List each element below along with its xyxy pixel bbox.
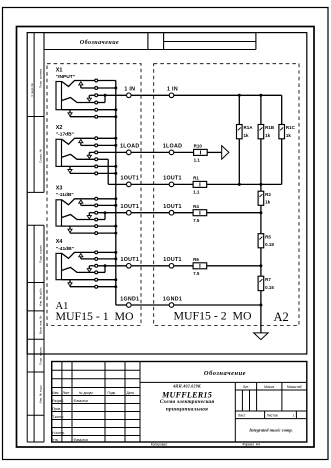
node 1OUT1 A2 pin label — [163, 257, 182, 263]
margin graph "Инв. № дубл." — [39, 288, 43, 307]
wire net 1OUT1(3) to R6 — [174, 265, 193, 267]
connector X4 ring switch arrow — [87, 266, 95, 272]
resistor R1A — [237, 125, 243, 139]
wire X2 pin4 to OUT row — [98, 159, 127, 184]
footer Формат А4 — [242, 443, 260, 447]
wire X3 pin1 to ground bus — [98, 198, 116, 200]
junction dot OUT2/spine — [259, 211, 262, 214]
svg-text:1LOAD: 1LOAD — [120, 144, 139, 150]
wire X2 pin6 to ground bus — [98, 172, 116, 174]
title block Лит/Масса/Масштаб headers — [243, 385, 302, 389]
svg-text:"-41dB": "-41dB" — [56, 246, 74, 252]
svg-text:1k: 1k — [244, 133, 250, 138]
connector X3 ring contact — [62, 215, 95, 220]
module A1 designator — [56, 301, 69, 312]
margin graph "Справ. №" — [39, 148, 43, 162]
svg-text:R4: R4 — [193, 204, 199, 209]
wire R1B bottom lead — [260, 139, 262, 185]
wire X1 pin4 joins pin3 — [98, 95, 105, 102]
svg-text:1GND1: 1GND1 — [163, 296, 182, 302]
svg-text:0.19: 0.19 — [265, 242, 274, 247]
svg-text:1k: 1k — [286, 133, 292, 138]
connector X3 pin 3 terminal — [95, 211, 98, 214]
svg-text:принципиальная: принципиальная — [166, 406, 208, 412]
node 1OUT1 A1 pin label — [121, 257, 140, 263]
connector X3 pin 5 terminal — [95, 225, 98, 228]
connector X1 pin 1 terminal — [95, 79, 98, 82]
svg-text:Обозначение: Обозначение — [204, 370, 246, 377]
wire X1 pin5 to ground bus — [98, 109, 116, 111]
junction dot bus row2 — [114, 204, 117, 207]
connector X1 body — [56, 82, 62, 110]
svg-text:"INPUT": "INPUT" — [56, 74, 75, 80]
svg-text:Разраб.: Разраб. — [52, 399, 64, 403]
connector X2 sleeve contact — [62, 165, 95, 167]
title block document number — [172, 385, 201, 389]
resistor R1 value label — [193, 190, 200, 195]
lower margin graph box — [27, 225, 44, 442]
svg-text:1OUT1: 1OUT1 — [121, 204, 140, 210]
svg-text:4НН.402.029К: 4НН.402.029К — [172, 385, 201, 389]
svg-text:1k: 1k — [265, 133, 271, 138]
connector X4 pin 2 terminal — [95, 257, 98, 260]
svg-text:Взам. инв. №: Взам. инв. № — [39, 315, 43, 334]
svg-text:Подп.: Подп. — [108, 391, 117, 395]
wire R1B top lead — [260, 95, 262, 124]
svg-text:MUF15 - 1 МО: MUF15 - 1 МО — [56, 309, 134, 323]
connector X1 designator label — [56, 67, 63, 73]
resistor R10 value label — [194, 158, 201, 163]
svg-text:Утв.: Утв. — [52, 438, 58, 442]
svg-text:1OUT1: 1OUT1 — [163, 257, 182, 263]
connector X1 name label — [56, 74, 75, 80]
svg-text:Фамилия: Фамилия — [74, 438, 89, 442]
connector X4 tip switch arrow — [79, 254, 95, 259]
title block row Утв. — [52, 438, 88, 442]
connector X3 designator label — [56, 186, 63, 192]
svg-text:1OUT1: 1OUT1 — [121, 257, 140, 263]
svg-text:R1A: R1A — [244, 125, 254, 130]
svg-text:Подп. и дата: Подп. и дата — [39, 347, 43, 365]
resistor R6 ref label — [193, 257, 199, 262]
svg-text:Схема электрическая: Схема электрическая — [160, 399, 215, 405]
svg-text:R1: R1 — [193, 176, 199, 181]
junction dot GND/spine — [259, 304, 262, 307]
wire X3 pin2 to ground bus — [98, 204, 116, 206]
svg-text:Инв. № подл.: Инв. № подл. — [39, 384, 43, 403]
left margin graph columns — [27, 33, 44, 193]
junction dot bus row6 — [114, 172, 117, 175]
connector X1 sleeve switch arrow — [68, 110, 95, 117]
wire spine R7 to ground — [260, 291, 262, 333]
svg-text:1.1: 1.1 — [194, 158, 201, 163]
svg-text:Масштаб: Масштаб — [287, 385, 302, 389]
connector X2 tip contact — [62, 138, 95, 144]
resistor R7 ref label — [265, 277, 271, 282]
connector X1 pin 5 terminal — [95, 108, 98, 111]
svg-text:"-11dB": "-11dB" — [56, 192, 74, 198]
svg-text:1OUT1: 1OUT1 — [163, 204, 182, 210]
resistor R10 ref label — [194, 144, 203, 149]
margin graph "Подп. и дата" (2) — [39, 347, 43, 365]
svg-text:X1: X1 — [56, 67, 63, 73]
svg-text:Обозначение: Обозначение — [80, 39, 119, 46]
junction dot OUT1/spine — [259, 183, 262, 186]
connector X1 ring switch arrow — [87, 95, 95, 101]
node 1OUT1 A2 pin label — [163, 204, 182, 210]
connector X4 pin 5 terminal — [95, 278, 98, 281]
svg-text:1OUT1: 1OUT1 — [121, 176, 140, 182]
connector X1 pin 3 terminal — [95, 94, 98, 97]
resistor R1 ref label — [193, 176, 199, 181]
svg-text:Перв. примен.: Перв. примен. — [39, 68, 43, 88]
node 1LOAD A2 pin circle — [169, 150, 174, 155]
resistor R1A value label — [244, 133, 250, 138]
resistor R4 ref label — [193, 204, 199, 209]
connector X2 pin 6 terminal — [95, 172, 98, 175]
resistor R1C ref label — [286, 125, 296, 130]
junction dot bus row1 — [114, 197, 117, 200]
wire X1 pin2 to ground bus — [98, 87, 116, 89]
resistor R1B — [258, 125, 264, 139]
svg-text:У черт. №: У черт. № — [30, 82, 34, 96]
connector X2 pin 2 terminal — [95, 144, 98, 147]
wire net 1OUT1 between modules — [131, 265, 169, 267]
resistor R1B value label — [265, 133, 271, 138]
svg-text:Масса: Масса — [264, 385, 274, 389]
wire X3 pin6 to ground bus — [98, 232, 116, 234]
connector X2 pin 1 terminal — [95, 137, 98, 140]
connector X3 body — [56, 200, 62, 226]
wire net 1OUT1 between modules — [131, 212, 169, 214]
margin graph "Инв. № подл." — [39, 384, 43, 403]
wire net 1OUT1(2) to R4 — [174, 212, 193, 214]
wire R1A bottom lead — [238, 139, 240, 185]
wire X4 pin1 to ground bus — [98, 251, 116, 253]
ground bus of module A1 — [116, 81, 127, 306]
wire net 1OUT1 between modules — [131, 183, 169, 185]
resistor R1A ref label — [244, 125, 254, 130]
junction dot bus row1 — [114, 137, 117, 140]
resistor R1 — [193, 181, 207, 187]
connector X4 pin 1 terminal — [95, 251, 98, 254]
node 1OUT1 A2 pin circle — [169, 182, 174, 187]
resistor R5 — [258, 234, 264, 248]
wire X4 pin2 to ground bus — [98, 258, 116, 260]
junction dot pins3-4 — [104, 94, 107, 97]
module A2 name — [174, 309, 252, 323]
connector X2 pin 3 terminal — [95, 151, 98, 154]
svg-text:R7: R7 — [265, 277, 271, 282]
top designation table — [44, 33, 256, 50]
wire R1A top lead — [238, 95, 240, 124]
title block row Пров. — [52, 407, 61, 411]
node 1OUT1 A1 pin label — [121, 176, 140, 182]
resistor R7 — [258, 276, 264, 290]
wire R1C bottom lead — [281, 139, 283, 185]
connector X4 sleeve switch arrow — [68, 280, 95, 287]
node 1 IN A2 pin label — [167, 87, 178, 93]
resistor R10 — [194, 149, 208, 155]
svg-text:"-17dB": "-17dB" — [56, 132, 74, 138]
resistor R2 — [258, 191, 264, 205]
connector X3 pin 2 terminal — [95, 204, 98, 207]
wire spine R2 to OUT2 — [260, 205, 262, 233]
svg-text:X2: X2 — [56, 125, 63, 131]
junction dot bus row5 — [114, 165, 117, 168]
node 1LOAD A1 pin circle — [127, 150, 132, 155]
node 1 IN A1 pin circle — [127, 93, 132, 98]
svg-text:1: 1 — [293, 414, 295, 418]
node 1LOAD A2 pin label — [163, 144, 182, 150]
node 1LOAD A1 pin label — [120, 144, 139, 150]
connector X2 pin 4 terminal — [95, 158, 98, 161]
svg-text:Т.контр.: Т.контр. — [52, 415, 64, 419]
resistor R2 value label — [265, 200, 271, 205]
resistor R1C — [279, 125, 285, 139]
connector X1 pin 4 terminal — [95, 101, 98, 104]
resistor R6 value label — [193, 271, 200, 276]
connector X2 ring contact — [62, 154, 95, 159]
junction dot bus row2 — [114, 87, 117, 90]
connector X1 sleeve contact — [62, 109, 95, 111]
svg-text:MUF15 - 2 МО: MUF15 - 2 МО — [174, 309, 252, 323]
connector X4 pin 4 terminal — [95, 271, 98, 274]
wire net 1LOAD between modules — [131, 151, 169, 153]
resistor R5 ref label — [265, 234, 271, 239]
node 1OUT1 A2 pin circle — [169, 210, 174, 215]
junction dot OUT3/spine — [259, 264, 262, 267]
connector X4 pin 6 terminal — [95, 285, 98, 288]
title block company name — [248, 427, 293, 432]
svg-text:1.1: 1.1 — [193, 190, 200, 195]
connector X4 body — [56, 253, 62, 279]
wire R10 to arrow — [207, 151, 222, 153]
wire spine R5 to OUT3 — [260, 248, 262, 276]
wire X4 pin3 signal — [98, 265, 127, 267]
connector X2 designator label — [56, 125, 63, 131]
svg-text:A2: A2 — [274, 310, 289, 324]
connector X3 tip switch arrow — [79, 200, 95, 205]
node 1GND1 A1 pin circle — [127, 303, 132, 308]
wire X4 pin6 to ground bus — [98, 286, 116, 288]
title block doc type line 1 — [160, 399, 215, 405]
svg-text:Справ. №: Справ. № — [39, 148, 43, 162]
node 1GND1 A2 pin label — [163, 296, 182, 302]
connector X4 sleeve contact — [62, 279, 95, 281]
wire R6 to spine — [207, 265, 261, 267]
connector X3 pin 6 terminal — [95, 232, 98, 235]
svg-text:Лит.: Лит. — [243, 385, 249, 389]
top table label "Обозначение" — [80, 39, 119, 46]
connector X1 ring contact — [62, 98, 95, 103]
junction dot pins3-4 — [104, 264, 107, 267]
resistor R1C value label — [286, 133, 292, 138]
svg-text:Инв. № дубл.: Инв. № дубл. — [39, 288, 43, 307]
wire spine OUT1 to R2 — [260, 184, 262, 191]
title block grid — [52, 362, 307, 443]
wire X2 pin2 to ground bus — [98, 144, 116, 146]
wire X2 pin1 to ground bus — [98, 137, 116, 139]
margin graph "Взам. инв. №" — [39, 315, 43, 334]
module A2 dashed box — [154, 64, 299, 326]
junction dot pins3-4 — [104, 211, 107, 214]
connector X3 pin 1 terminal — [95, 197, 98, 200]
connector X2 body — [56, 139, 62, 166]
junction dot bus row5 — [114, 225, 117, 228]
title block designation "Обозначение" — [204, 370, 246, 377]
wire net 1GND1 between modules — [131, 304, 169, 306]
connector X3 sleeve switch arrow — [68, 226, 95, 233]
module A1 name — [56, 309, 134, 323]
connector X2 ring switch arrow — [87, 152, 95, 158]
connector X4 name label — [56, 246, 74, 252]
node 1 IN A2 pin circle — [169, 93, 174, 98]
wire X1 pin6 to ground bus — [98, 116, 116, 118]
svg-text:№ докум.: № докум. — [79, 391, 94, 395]
connector X3 tip contact — [62, 199, 95, 205]
junction dot bus row5 — [114, 108, 117, 111]
junction dot bus row2 — [114, 257, 117, 260]
wire X1 pin3 signal — [98, 94, 127, 96]
resistor R6 — [193, 263, 207, 269]
wire net 1 IN between modules — [131, 94, 169, 96]
margin graph "Подп. и дата" — [39, 245, 43, 263]
connector X4 designator label — [56, 239, 63, 245]
resistor R4 — [193, 210, 207, 216]
wire X1 pin1 to ground bus — [98, 80, 116, 82]
connector X3 ring switch arrow — [87, 213, 95, 219]
svg-text:Изм: Изм — [52, 391, 59, 395]
junction dot bus row6 — [114, 232, 117, 235]
drawing content box — [27, 33, 307, 354]
svg-text:Копировал: Копировал — [151, 443, 168, 447]
wire X2 pin3 signal — [98, 151, 127, 153]
resistor R5 value label — [265, 242, 274, 247]
module A2 designator — [274, 310, 289, 324]
node 1OUT1 A2 pin label — [163, 176, 182, 182]
connector X3 sleeve contact — [62, 225, 95, 227]
title block row Т.контр. — [52, 415, 64, 419]
svg-text:R6: R6 — [193, 257, 199, 262]
node 1OUT1 A2 pin circle — [169, 264, 174, 269]
svg-text:Подп. и дата: Подп. и дата — [39, 245, 43, 263]
resistor R2 ref label — [265, 192, 271, 197]
svg-text:Integrated music comp.: Integrated music comp. — [248, 427, 293, 432]
node 1OUT1 A1 pin circle — [127, 264, 132, 269]
connector X1 tip contact — [62, 81, 95, 87]
svg-text:R1B: R1B — [265, 125, 275, 130]
off-sheet arrow symbol — [222, 146, 229, 160]
svg-text:7.5: 7.5 — [193, 218, 200, 223]
connector X3 name label — [56, 192, 74, 198]
svg-text:Пров.: Пров. — [52, 407, 61, 411]
svg-text:1k: 1k — [265, 200, 271, 205]
node 1OUT1 A1 pin circle — [127, 182, 132, 187]
title block doc type line 2 — [166, 406, 208, 412]
svg-text:Н.контр.: Н.контр. — [52, 431, 65, 435]
resistor R1B ref label — [265, 125, 275, 130]
wire net 1LOAD to R10 — [174, 151, 194, 153]
title block row Разраб. — [52, 399, 88, 403]
wire net 1IN to divider string — [174, 94, 282, 96]
wire R4 to spine — [207, 212, 261, 214]
junction dot bus row6 — [114, 285, 117, 288]
junction dot 1IN/R1A — [238, 94, 241, 97]
node 1GND1 A2 pin circle — [169, 303, 174, 308]
wire X4 pin5 to ground bus — [98, 279, 116, 281]
connector X1 pin 6 terminal — [95, 115, 98, 118]
svg-text:X3: X3 — [56, 186, 63, 192]
connector X4 ring contact — [62, 267, 95, 272]
svg-text:Фамилия: Фамилия — [74, 399, 89, 403]
svg-text:X4: X4 — [56, 239, 63, 245]
ground symbol — [254, 333, 268, 340]
wire R1C top lead — [281, 95, 283, 124]
svg-text:7.5: 7.5 — [193, 271, 200, 276]
title block Лист/Листов row — [238, 414, 295, 418]
wire R1 to divider bus — [207, 183, 282, 185]
svg-text:Формат А4: Формат А4 — [242, 443, 260, 447]
svg-text:1GND1: 1GND1 — [120, 296, 139, 302]
title block product name MUFFLER15 — [161, 390, 212, 399]
wire net 1OUT1 to R1 — [174, 183, 193, 185]
node 1OUT1 A1 pin circle — [127, 210, 132, 215]
junction dot bus row2 — [114, 144, 117, 147]
connector X2 tip switch arrow — [79, 140, 95, 146]
junction dot bus row5 — [114, 278, 117, 281]
wire X2 pin5 to ground bus — [98, 165, 116, 167]
svg-text:1 IN: 1 IN — [124, 87, 135, 93]
wire X3 pin5 to ground bus — [98, 225, 116, 227]
node 1 IN A1 pin label — [124, 87, 135, 93]
junction dot 1IN/R1B — [259, 94, 262, 97]
connector X4 tip contact — [62, 252, 95, 258]
title block row Н.контр. — [52, 431, 65, 435]
svg-text:R5: R5 — [265, 234, 271, 239]
svg-text:Дата: Дата — [127, 391, 134, 395]
node 1OUT1 A1 pin label — [121, 204, 140, 210]
svg-text:R1C: R1C — [286, 125, 296, 130]
svg-text:Лист: Лист — [238, 414, 246, 418]
svg-text:0.15: 0.15 — [265, 285, 274, 290]
junction dot OUT1/R1A — [238, 183, 241, 186]
node 1GND1 A1 pin label — [120, 296, 139, 302]
connector X1 tip switch arrow — [79, 82, 95, 88]
svg-text:Лист: Лист — [63, 391, 71, 395]
title block header row labels — [52, 391, 134, 395]
margin graph label col1 — [30, 82, 34, 96]
svg-text:1LOAD: 1LOAD — [163, 144, 182, 150]
wire X3 pin4 joins pin3 — [98, 213, 105, 220]
connector X1 pin 2 terminal — [95, 87, 98, 90]
module A1 dashed box — [47, 64, 141, 326]
wire X3 pin3 signal — [98, 212, 127, 214]
svg-text:1 IN: 1 IN — [167, 87, 178, 93]
connector X2 pin 5 terminal — [95, 165, 98, 168]
wire net 1GND1 to spine — [174, 304, 261, 306]
footer Копировал — [151, 443, 168, 447]
resistor R4 value label — [193, 218, 200, 223]
junction dot bus row6 — [114, 115, 117, 118]
connector X2 name label — [56, 132, 74, 138]
margin graph "Перв. примен." — [39, 68, 43, 88]
svg-text:R2: R2 — [265, 192, 271, 197]
svg-text:Листов: Листов — [267, 414, 278, 418]
resistor R7 value label — [265, 285, 274, 290]
connector X3 pin 4 terminal — [95, 218, 98, 221]
junction dot bus row1 — [114, 251, 117, 254]
